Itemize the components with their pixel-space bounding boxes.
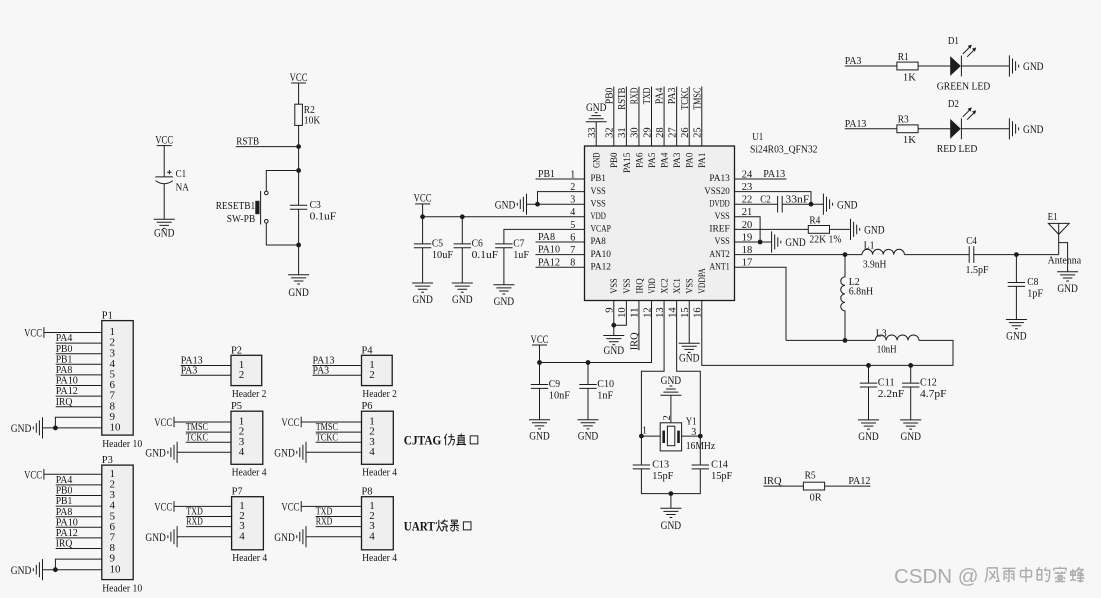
wire ANT1 rail to L3 xyxy=(786,339,875,341)
svg-text:PB0: PB0 xyxy=(609,153,620,168)
wire crystal pin1 xyxy=(641,435,660,437)
svg-text:P6: P6 xyxy=(362,400,373,412)
wire C5 top xyxy=(422,217,424,244)
svg-text:P4: P4 xyxy=(362,344,373,356)
inductor L1 xyxy=(862,240,904,271)
junction C6 xyxy=(460,214,465,219)
svg-text:GND: GND xyxy=(274,446,295,460)
wire R5 to PA12 xyxy=(825,485,871,487)
wire crystal pin3 xyxy=(682,435,701,437)
wire pin3 VSS xyxy=(527,203,585,205)
svg-text:VDD: VDD xyxy=(591,211,606,222)
svg-text:PA12: PA12 xyxy=(591,261,611,272)
wire C8 top xyxy=(1015,255,1017,283)
wire pin6 PA10 (P1) xyxy=(56,385,102,387)
svg-text:GND: GND xyxy=(837,197,858,211)
svg-text:C9: C9 xyxy=(549,378,561,390)
wire R2 to node RSTB xyxy=(298,125,300,170)
wire R1 to D1 xyxy=(918,65,950,67)
svg-text:Si24R03_QFN32: Si24R03_QFN32 xyxy=(750,145,818,156)
svg-text:SW-PB: SW-PB xyxy=(227,213,256,225)
wire C7 bottom xyxy=(503,248,505,285)
svg-text:GND: GND xyxy=(661,373,682,387)
svg-text:GND: GND xyxy=(661,518,682,532)
capacitor C7 xyxy=(495,238,529,262)
junction switch top xyxy=(296,168,301,173)
svg-text:PA0: PA0 xyxy=(685,153,696,168)
svg-text:PA13: PA13 xyxy=(845,118,867,130)
svg-text:GND: GND xyxy=(154,226,175,240)
wire C5 bottom xyxy=(422,248,424,283)
svg-text:4.7pF: 4.7pF xyxy=(920,388,947,400)
wire crystal gnd stem xyxy=(670,494,672,509)
ground (P1) xyxy=(11,417,43,438)
crystal Y1 xyxy=(642,415,715,452)
svg-text:16MHz: 16MHz xyxy=(686,440,716,452)
svg-text:GND: GND xyxy=(288,285,309,299)
svg-text:15pF: 15pF xyxy=(711,470,732,482)
wire pin3 PB0 (P3) xyxy=(56,495,102,497)
junction crystal pin1 xyxy=(639,434,644,439)
svg-text:R5: R5 xyxy=(805,470,816,482)
svg-text:VCC: VCC xyxy=(154,499,172,513)
svg-text:VCC: VCC xyxy=(290,70,308,84)
watermark chinese characters xyxy=(985,567,1084,583)
junction C11 xyxy=(866,363,871,368)
wire VCC to R2 xyxy=(298,83,300,104)
antenna E1 xyxy=(1048,211,1082,272)
svg-text:R3: R3 xyxy=(898,114,909,126)
svg-text:0R: 0R xyxy=(810,491,823,503)
wire R4 to gnd xyxy=(830,228,851,230)
wire pin10 gnd (P1) xyxy=(43,427,102,429)
svg-text:IREF: IREF xyxy=(709,224,730,235)
svg-text:4: 4 xyxy=(369,446,375,458)
wire VCC stem (C9) xyxy=(539,345,541,363)
svg-text:PA6: PA6 xyxy=(634,153,645,168)
svg-text:C8: C8 xyxy=(1027,276,1039,288)
capacitor C8 xyxy=(1008,276,1043,300)
wire pin1 VCC (P6) xyxy=(301,421,361,423)
wire pin4 gnd (P7) xyxy=(177,536,232,538)
svg-text:Y1: Y1 xyxy=(686,416,697,428)
wire pin14 XC1 xyxy=(677,301,701,466)
connector P3 (Header 10) xyxy=(102,465,133,579)
led D1 xyxy=(937,35,991,92)
svg-text:Header 2: Header 2 xyxy=(232,389,267,400)
wire C6 top xyxy=(461,217,463,244)
wire pin7 PA10 xyxy=(536,254,585,256)
ground (C1) xyxy=(154,219,175,240)
junction L2 bottom xyxy=(843,338,848,343)
svg-text:22K 1%: 22K 1% xyxy=(809,234,841,246)
wire pin3 PB0 (P1) xyxy=(56,353,102,355)
svg-text:2.2nF: 2.2nF xyxy=(878,388,905,400)
svg-text:IRQ: IRQ xyxy=(764,475,782,487)
ground (C10) xyxy=(578,420,599,443)
power flag VCC (P5) xyxy=(154,415,174,429)
wire pin1 PB1 xyxy=(536,178,585,180)
ground (C9) xyxy=(529,420,550,443)
capacitor C5 xyxy=(414,238,453,262)
svg-text:10nH: 10nH xyxy=(877,343,897,355)
pushbutton RESETB1 SW-PB xyxy=(216,191,268,225)
svg-text:Header 4: Header 4 xyxy=(362,468,398,479)
wire pin8 IRQ (P3) xyxy=(56,548,102,550)
svg-text:15pF: 15pF xyxy=(652,470,673,482)
svg-text:RXD: RXD xyxy=(186,516,203,528)
svg-text:P5: P5 xyxy=(231,400,242,412)
svg-text:RESETB1: RESETB1 xyxy=(216,200,256,212)
svg-text:GREEN LED: GREEN LED xyxy=(937,80,991,92)
wire pin2 PA3 (P2) xyxy=(181,374,231,376)
junction pin23/C2 xyxy=(809,202,814,207)
ground (P8) xyxy=(274,526,306,547)
wire C2 to gnd xyxy=(782,203,823,205)
wire pin2 TMSC (P5) xyxy=(186,431,231,433)
svg-text:C14: C14 xyxy=(711,459,728,471)
svg-text:VCC: VCC xyxy=(154,415,172,429)
svg-text:C5: C5 xyxy=(432,238,444,250)
ground (antenna) xyxy=(1057,272,1078,295)
svg-text:VCC: VCC xyxy=(155,132,173,146)
svg-text:Header 2: Header 2 xyxy=(362,389,397,400)
svg-text:Header 10: Header 10 xyxy=(102,583,142,594)
svg-text:GND: GND xyxy=(145,530,166,544)
svg-text:GND: GND xyxy=(494,294,515,308)
junction RSTB xyxy=(296,144,301,149)
wire pin1 PA13 (P4) xyxy=(313,365,362,367)
svg-text:GND: GND xyxy=(858,429,879,443)
ground (mcu pin 19) xyxy=(772,231,806,252)
svg-text:VCAP: VCAP xyxy=(591,224,612,235)
wire pin4 PB1 (P1) xyxy=(56,363,102,365)
junction crystal gnd xyxy=(669,491,674,496)
wire pin2 PA3 (P4) xyxy=(313,374,362,376)
svg-text:DVDD: DVDD xyxy=(709,198,729,209)
svg-text:Header 4: Header 4 xyxy=(362,553,398,564)
ground (C6) xyxy=(452,283,473,306)
svg-text:GND: GND xyxy=(900,429,921,443)
junction pins9-10 xyxy=(611,323,616,328)
mcu left pin names xyxy=(591,173,612,272)
svg-text:VCC: VCC xyxy=(414,191,432,205)
svg-text:VSS20: VSS20 xyxy=(704,186,730,197)
ground (reset) xyxy=(288,275,309,299)
connector P1 (Header 10) xyxy=(102,321,133,436)
connector P4 (Header 2) xyxy=(362,355,393,385)
svg-text:E1: E1 xyxy=(1048,211,1058,223)
svg-text:PA12: PA12 xyxy=(538,256,560,268)
svg-text:2: 2 xyxy=(239,369,245,381)
resistor R2 xyxy=(295,104,303,125)
svg-text:1pF: 1pF xyxy=(1027,288,1043,300)
svg-text:2: 2 xyxy=(369,369,375,381)
wire pin21 VSS xyxy=(735,217,761,242)
svg-text:CJTAG: CJTAG xyxy=(404,433,442,448)
junction ANT2/L2 xyxy=(843,252,848,257)
svg-text:C6: C6 xyxy=(472,238,484,250)
svg-text:GND: GND xyxy=(1023,59,1044,73)
wire pin5 VCAP xyxy=(504,229,585,244)
svg-text:PA3: PA3 xyxy=(845,55,862,67)
ground (C12) xyxy=(900,420,921,443)
svg-text:TCKC: TCKC xyxy=(316,431,338,443)
svg-text:IRQ: IRQ xyxy=(629,332,641,350)
wire pin9 VSS xyxy=(613,301,615,336)
svg-text:RED LED: RED LED xyxy=(937,143,978,155)
svg-text:GND: GND xyxy=(604,343,625,357)
svg-text:VSS: VSS xyxy=(609,278,620,293)
wire pin3 RXD (P8) xyxy=(316,526,362,528)
junction gnd (P1) xyxy=(53,426,58,431)
net labels above mcu (PB0 RSTB RXD TXD PA4 PA3 TCKC TMSC) xyxy=(603,87,703,110)
svg-text:PA3: PA3 xyxy=(313,364,330,376)
mcu right pin names xyxy=(704,173,730,272)
svg-text:UART: UART xyxy=(404,519,435,534)
svg-text:ANT2: ANT2 xyxy=(709,249,729,260)
wire pin1 VCC (P5) xyxy=(174,421,231,423)
wire to switch top xyxy=(266,171,298,192)
wire pin24 PA13 xyxy=(735,178,787,180)
power flag VCC (R2) xyxy=(290,70,308,84)
svg-text:10: 10 xyxy=(110,563,122,575)
wire pin2 TMSC (P6) xyxy=(316,431,362,433)
svg-text:VSS: VSS xyxy=(591,186,606,197)
svg-text:GND: GND xyxy=(11,563,32,577)
svg-text:10nF: 10nF xyxy=(549,390,570,402)
svg-text:PA15: PA15 xyxy=(622,153,633,173)
svg-text:GND: GND xyxy=(864,223,885,237)
ground (P7) xyxy=(145,526,177,547)
wire pin2 TXD (P8) xyxy=(316,516,362,518)
svg-text:PA8: PA8 xyxy=(591,236,606,247)
junction C12 xyxy=(908,363,913,368)
resistor R1 xyxy=(897,62,918,70)
svg-text:PA4: PA4 xyxy=(659,153,670,168)
svg-text:TCKC: TCKC xyxy=(186,431,208,443)
svg-text:VCC: VCC xyxy=(281,499,299,513)
wire pin7 PA12 (P1) xyxy=(56,395,102,397)
svg-text:PA3: PA3 xyxy=(181,364,198,376)
wire pin3 TCKC (P6) xyxy=(316,441,362,443)
ground (P5) xyxy=(145,442,177,463)
wire VCC pin1 (P3) xyxy=(44,473,102,475)
svg-text:C13: C13 xyxy=(652,459,669,471)
wire pin2 VSS xyxy=(538,192,585,205)
svg-text:TMSC: TMSC xyxy=(691,88,703,110)
ground (D1) xyxy=(1009,55,1043,76)
wire pin4 PB1 (P3) xyxy=(56,505,102,507)
ground (mcu pins 2,3) xyxy=(495,194,527,215)
svg-text:3: 3 xyxy=(691,427,696,438)
svg-text:P1: P1 xyxy=(102,310,113,322)
wire L1 to C4 xyxy=(904,254,969,256)
capacitor C13 xyxy=(633,459,674,483)
wire pin5 PA8 (P3) xyxy=(56,516,102,518)
svg-text:1K: 1K xyxy=(903,134,916,146)
watermark CSDN xyxy=(894,565,979,588)
svg-text:PA4: PA4 xyxy=(654,87,666,104)
wire pin23 VSS20 xyxy=(735,192,812,205)
wire pin2 TXD (P7) xyxy=(186,516,231,518)
svg-text:RXD: RXD xyxy=(629,88,641,105)
svg-text:P8: P8 xyxy=(362,486,373,498)
svg-text:PB1: PB1 xyxy=(538,168,555,180)
mcu bottom pin names xyxy=(609,268,708,294)
svg-text:XC1: XC1 xyxy=(672,278,683,293)
wire C11 top xyxy=(868,365,870,383)
svg-text:NA: NA xyxy=(176,181,189,193)
wire pin4 gnd (P8) xyxy=(306,536,362,538)
capacitor C11 xyxy=(860,377,905,401)
svg-text:GND: GND xyxy=(452,292,473,306)
wire pin4 gnd (P6) xyxy=(306,451,362,453)
svg-text:C2: C2 xyxy=(760,193,771,205)
connector P2 (Header 2) xyxy=(231,355,262,385)
wire pin13 XC2 xyxy=(641,301,664,466)
wire pin20 IREF to R4 xyxy=(735,228,809,230)
svg-text:P2: P2 xyxy=(231,344,242,356)
svg-text:C1: C1 xyxy=(176,168,187,180)
svg-text:VSS: VSS xyxy=(715,236,730,247)
svg-text:4: 4 xyxy=(369,530,375,542)
wire VCC pin1 (P1) xyxy=(44,332,102,334)
svg-text:1.5pF: 1.5pF xyxy=(966,264,989,276)
capacitor C3 xyxy=(290,199,336,223)
wire pin10 gnd (P3) xyxy=(43,569,102,571)
wire VCC stem xyxy=(422,204,424,217)
mcu top pin numbers 33-25 xyxy=(587,127,704,137)
inductor L3 xyxy=(875,327,919,355)
wire pin9 (P1) xyxy=(55,417,101,428)
svg-text:GND: GND xyxy=(578,429,599,443)
power flag VCC (P7) xyxy=(154,499,174,513)
wire C11 bottom xyxy=(868,387,870,420)
power flag VCC (P8) xyxy=(281,499,301,513)
ground (P6) xyxy=(274,442,306,463)
wire pin3 TCKC (P5) xyxy=(186,441,231,443)
svg-text:4: 4 xyxy=(239,530,245,542)
capacitor C2 xyxy=(778,196,783,213)
wire pin1 VCC (P8) xyxy=(301,505,361,507)
wire D2 to gnd xyxy=(961,128,1009,130)
wire pin1 PA13 (P2) xyxy=(181,365,231,367)
svg-text:ANT1: ANT1 xyxy=(709,261,729,272)
svg-text:0.1uF: 0.1uF xyxy=(472,249,499,261)
svg-text:GND: GND xyxy=(145,446,166,460)
wire pin33 to gnd xyxy=(595,122,597,146)
junction C5 xyxy=(420,214,425,219)
svg-text:1: 1 xyxy=(642,426,647,437)
wire pin4 gnd (P5) xyxy=(177,451,231,453)
capacitor C1 (polarized, NA) xyxy=(155,168,188,193)
wire L3 to VDDPA rail xyxy=(702,301,953,366)
svg-text:10: 10 xyxy=(110,422,122,434)
svg-text:6.8nH: 6.8nH xyxy=(849,285,874,297)
capacitor C14 xyxy=(692,459,733,483)
svg-text:33nF: 33nF xyxy=(785,193,809,205)
svg-text:C10: C10 xyxy=(597,378,614,390)
connector P8 (Header 4) xyxy=(362,497,394,550)
svg-text:C7: C7 xyxy=(513,238,525,250)
ground (crystal caps) xyxy=(660,508,681,532)
mcu bottom pin numbers 9-16 xyxy=(605,307,704,318)
ground (C11) xyxy=(858,420,879,443)
svg-text:GND: GND xyxy=(1006,329,1027,343)
resistor R4 xyxy=(808,226,829,234)
svg-text:GND: GND xyxy=(529,429,550,443)
wire pin10 VSS xyxy=(614,301,627,326)
svg-text:U1: U1 xyxy=(752,131,763,143)
svg-text:VSS: VSS xyxy=(715,211,730,222)
wire pin8 IRQ (P1) xyxy=(56,406,102,408)
svg-text:R1: R1 xyxy=(898,51,909,63)
svg-text:PA3: PA3 xyxy=(672,153,683,168)
svg-text:C11: C11 xyxy=(878,377,895,389)
wire C12 top xyxy=(910,365,912,383)
wire PA13 to R3 xyxy=(845,128,897,130)
svg-text:VCC: VCC xyxy=(531,332,549,346)
svg-text:GND: GND xyxy=(592,153,603,168)
wire pin3 RXD (P7) xyxy=(186,526,231,528)
svg-text:D2: D2 xyxy=(948,98,959,110)
svg-text:TCKC: TCKC xyxy=(679,88,691,110)
svg-text:GND: GND xyxy=(1023,122,1044,136)
wires mcu top pins 32-25 xyxy=(614,87,702,146)
wire VCC to C1 xyxy=(163,146,165,177)
ground (C8) xyxy=(1006,320,1027,343)
ground (mcu pin 15) xyxy=(679,343,700,365)
svg-text:VDD: VDD xyxy=(647,278,658,293)
ground (mcu pins 9,10) xyxy=(603,336,624,358)
svg-text:RXD: RXD xyxy=(316,516,333,528)
mcu left pin numbers 1-8 xyxy=(570,169,575,268)
wire PA3 to R1 xyxy=(845,65,897,67)
wire pin17 ANT1 xyxy=(735,267,787,340)
svg-text:CSDN @: CSDN @ xyxy=(894,565,979,588)
junction crystal pin3 xyxy=(698,434,703,439)
capacitor C10 xyxy=(579,378,614,402)
svg-text:PA13: PA13 xyxy=(763,168,785,180)
power flag VCC (C1 branch) xyxy=(155,132,173,146)
wire C12 bottom xyxy=(910,387,912,420)
svg-text:GND: GND xyxy=(679,351,700,365)
connector P5 (Header 4) xyxy=(231,411,263,464)
ground (crystal pin2, inverted) xyxy=(660,373,681,395)
svg-text:R4: R4 xyxy=(809,214,820,226)
svg-text:IRQ: IRQ xyxy=(56,396,73,408)
wire pin18 ANT2 xyxy=(735,254,863,256)
svg-text:IRQ: IRQ xyxy=(634,278,645,293)
svg-text:1nF: 1nF xyxy=(597,390,613,402)
resistor R5 xyxy=(803,482,824,490)
junction C10 xyxy=(586,360,591,365)
svg-text:VSS: VSS xyxy=(622,278,633,293)
wire pin15 VSS xyxy=(688,301,690,344)
svg-text:PA10: PA10 xyxy=(591,249,611,260)
svg-text:GND: GND xyxy=(785,235,806,249)
wire pin19 VSS xyxy=(735,241,772,243)
svg-text:10K: 10K xyxy=(304,115,321,127)
svg-text:P7: P7 xyxy=(232,486,243,498)
ground (C5) xyxy=(412,283,433,306)
wire pin4 VDD / VCC rail xyxy=(423,216,585,218)
ground (D2) xyxy=(1009,118,1043,139)
svg-text:Antenna: Antenna xyxy=(1048,255,1082,267)
ground (C2) xyxy=(823,194,857,215)
wire C10 bottom xyxy=(587,388,589,419)
